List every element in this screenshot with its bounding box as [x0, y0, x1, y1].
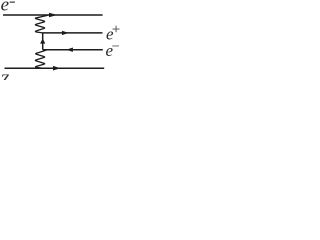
arrow on nucleus line: [53, 66, 61, 71]
photon (wavy) upper: [35, 15, 48, 33]
wire: nucleus line (bottom): [5, 67, 105, 69]
arrow on top electron line: [49, 13, 57, 18]
arrow up on internal line: [40, 38, 45, 43]
wire: positron line (middle upper): [43, 32, 103, 34]
wire: incoming electron line (top): [3, 14, 103, 16]
svg-text:e: e: [1, 0, 9, 16]
svg-text:Z: Z: [0, 72, 9, 80]
svg-text:e: e: [106, 41, 114, 60]
wire: internal fermion line (vertical): [42, 33, 44, 50]
photon (wavy) lower: [35, 50, 47, 68]
arrow on positron line: [62, 31, 69, 35]
wire: outgoing electron line (middle lower): [43, 49, 103, 51]
arrow (pointing left) on electron line: [66, 48, 73, 52]
